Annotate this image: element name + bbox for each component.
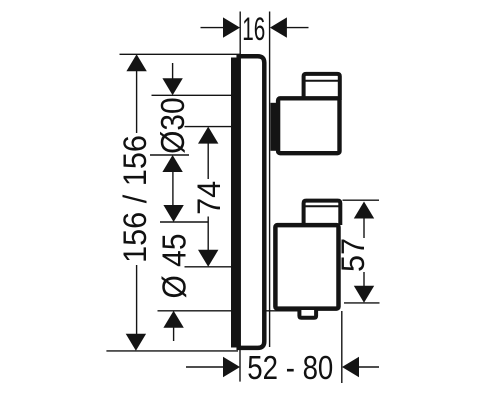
dim 57: dimension line lower segment [363, 272, 365, 288]
dim Ø30: bottom arrow (points up) [162, 155, 182, 172]
dim Ø30: top extension line [152, 94, 232, 96]
dim 74: dimension line lower segment [207, 217, 209, 253]
dim 57: bottom arrow (points down) [354, 286, 374, 303]
dim 52-80: left arrow (points right) [223, 357, 240, 377]
top knob body [278, 98, 339, 153]
svg-text:74: 74 [191, 181, 227, 215]
dim Ø45: bottom arrow stem [173, 326, 175, 341]
dim Ø30/Ø45: shared stem between arrows [172, 170, 174, 207]
dim 156/156: bottom arrow (points down) [126, 334, 146, 351]
dim 16: left extension line [239, 12, 241, 55]
dim 156/156: dimension line upper segment [136, 69, 138, 133]
top knob neck [271, 103, 277, 151]
dim 16: right extension line (long, runs to plate bottom) [269, 12, 271, 348]
dim 57: top arrow (points up) [354, 202, 374, 219]
dim Ø45: bottom arrow (points up) [163, 311, 183, 328]
dim 16: right arrow (points left) [270, 17, 287, 37]
dim Ø30: bottom extension line [150, 154, 189, 156]
dim 52-80: left extension line [239, 350, 241, 382]
dim 16: left arrow (points right) [223, 17, 240, 37]
dim Ø45: bottom extension line left segment [158, 310, 232, 312]
plate front escutcheon outline [239, 56, 265, 348]
dim 74: top arrow (points up) [198, 127, 218, 144]
dim 156/156: top extension line [120, 53, 241, 55]
dim 57: top extension line [343, 199, 380, 201]
dim 74: dimension line upper segment [207, 141, 209, 179]
dim 57: dimension line upper segment [363, 216, 365, 238]
dim Ø30: top arrow (points down) [162, 78, 182, 95]
dim 16: right dimension line [285, 27, 309, 29]
dim 52-80: left dimension line [186, 366, 225, 368]
dim Ø45: top arrow (points down) [163, 205, 183, 222]
bottom knob safety tab [299, 310, 316, 318]
dim 57: bottom extension line [344, 302, 380, 304]
svg-text:Ø 45: Ø 45 [157, 234, 194, 299]
dim Ø45: bottom extension line right segment [266, 310, 300, 312]
dim 74: bottom arrow (points down) [198, 250, 218, 267]
svg-text:Ø30: Ø30 [155, 97, 192, 154]
top knob cap [304, 74, 340, 100]
dim 156/156: dimension line lower segment [136, 265, 138, 336]
dim 16: left dimension line [201, 27, 226, 29]
plate back bar (wall flange, filled) [231, 58, 239, 348]
dim 156/156: top arrow (points up) [126, 54, 146, 71]
svg-text:57: 57 [335, 238, 371, 272]
svg-text:156 / 156: 156 / 156 [117, 135, 153, 263]
dim 74: bottom extension line [185, 266, 232, 268]
dim Ø45: top extension line [160, 221, 208, 223]
bottom knob cap [304, 201, 341, 225]
bottom knob body [275, 225, 338, 309]
bottom knob cap inner line [304, 205, 341, 207]
dim 156/156: bottom extension line [106, 350, 238, 352]
dim 52-80: right extension line [341, 311, 343, 383]
dim 74: top extension line [185, 126, 232, 128]
svg-text:16: 16 [242, 11, 265, 47]
dim Ø30: top arrow stem [172, 63, 174, 81]
svg-text:52 - 80: 52 - 80 [247, 349, 333, 386]
dim 52-80: right dimension line [357, 366, 379, 368]
top knob cap inner line [304, 80, 340, 82]
dim 52-80: right arrow (points left) [342, 357, 359, 377]
